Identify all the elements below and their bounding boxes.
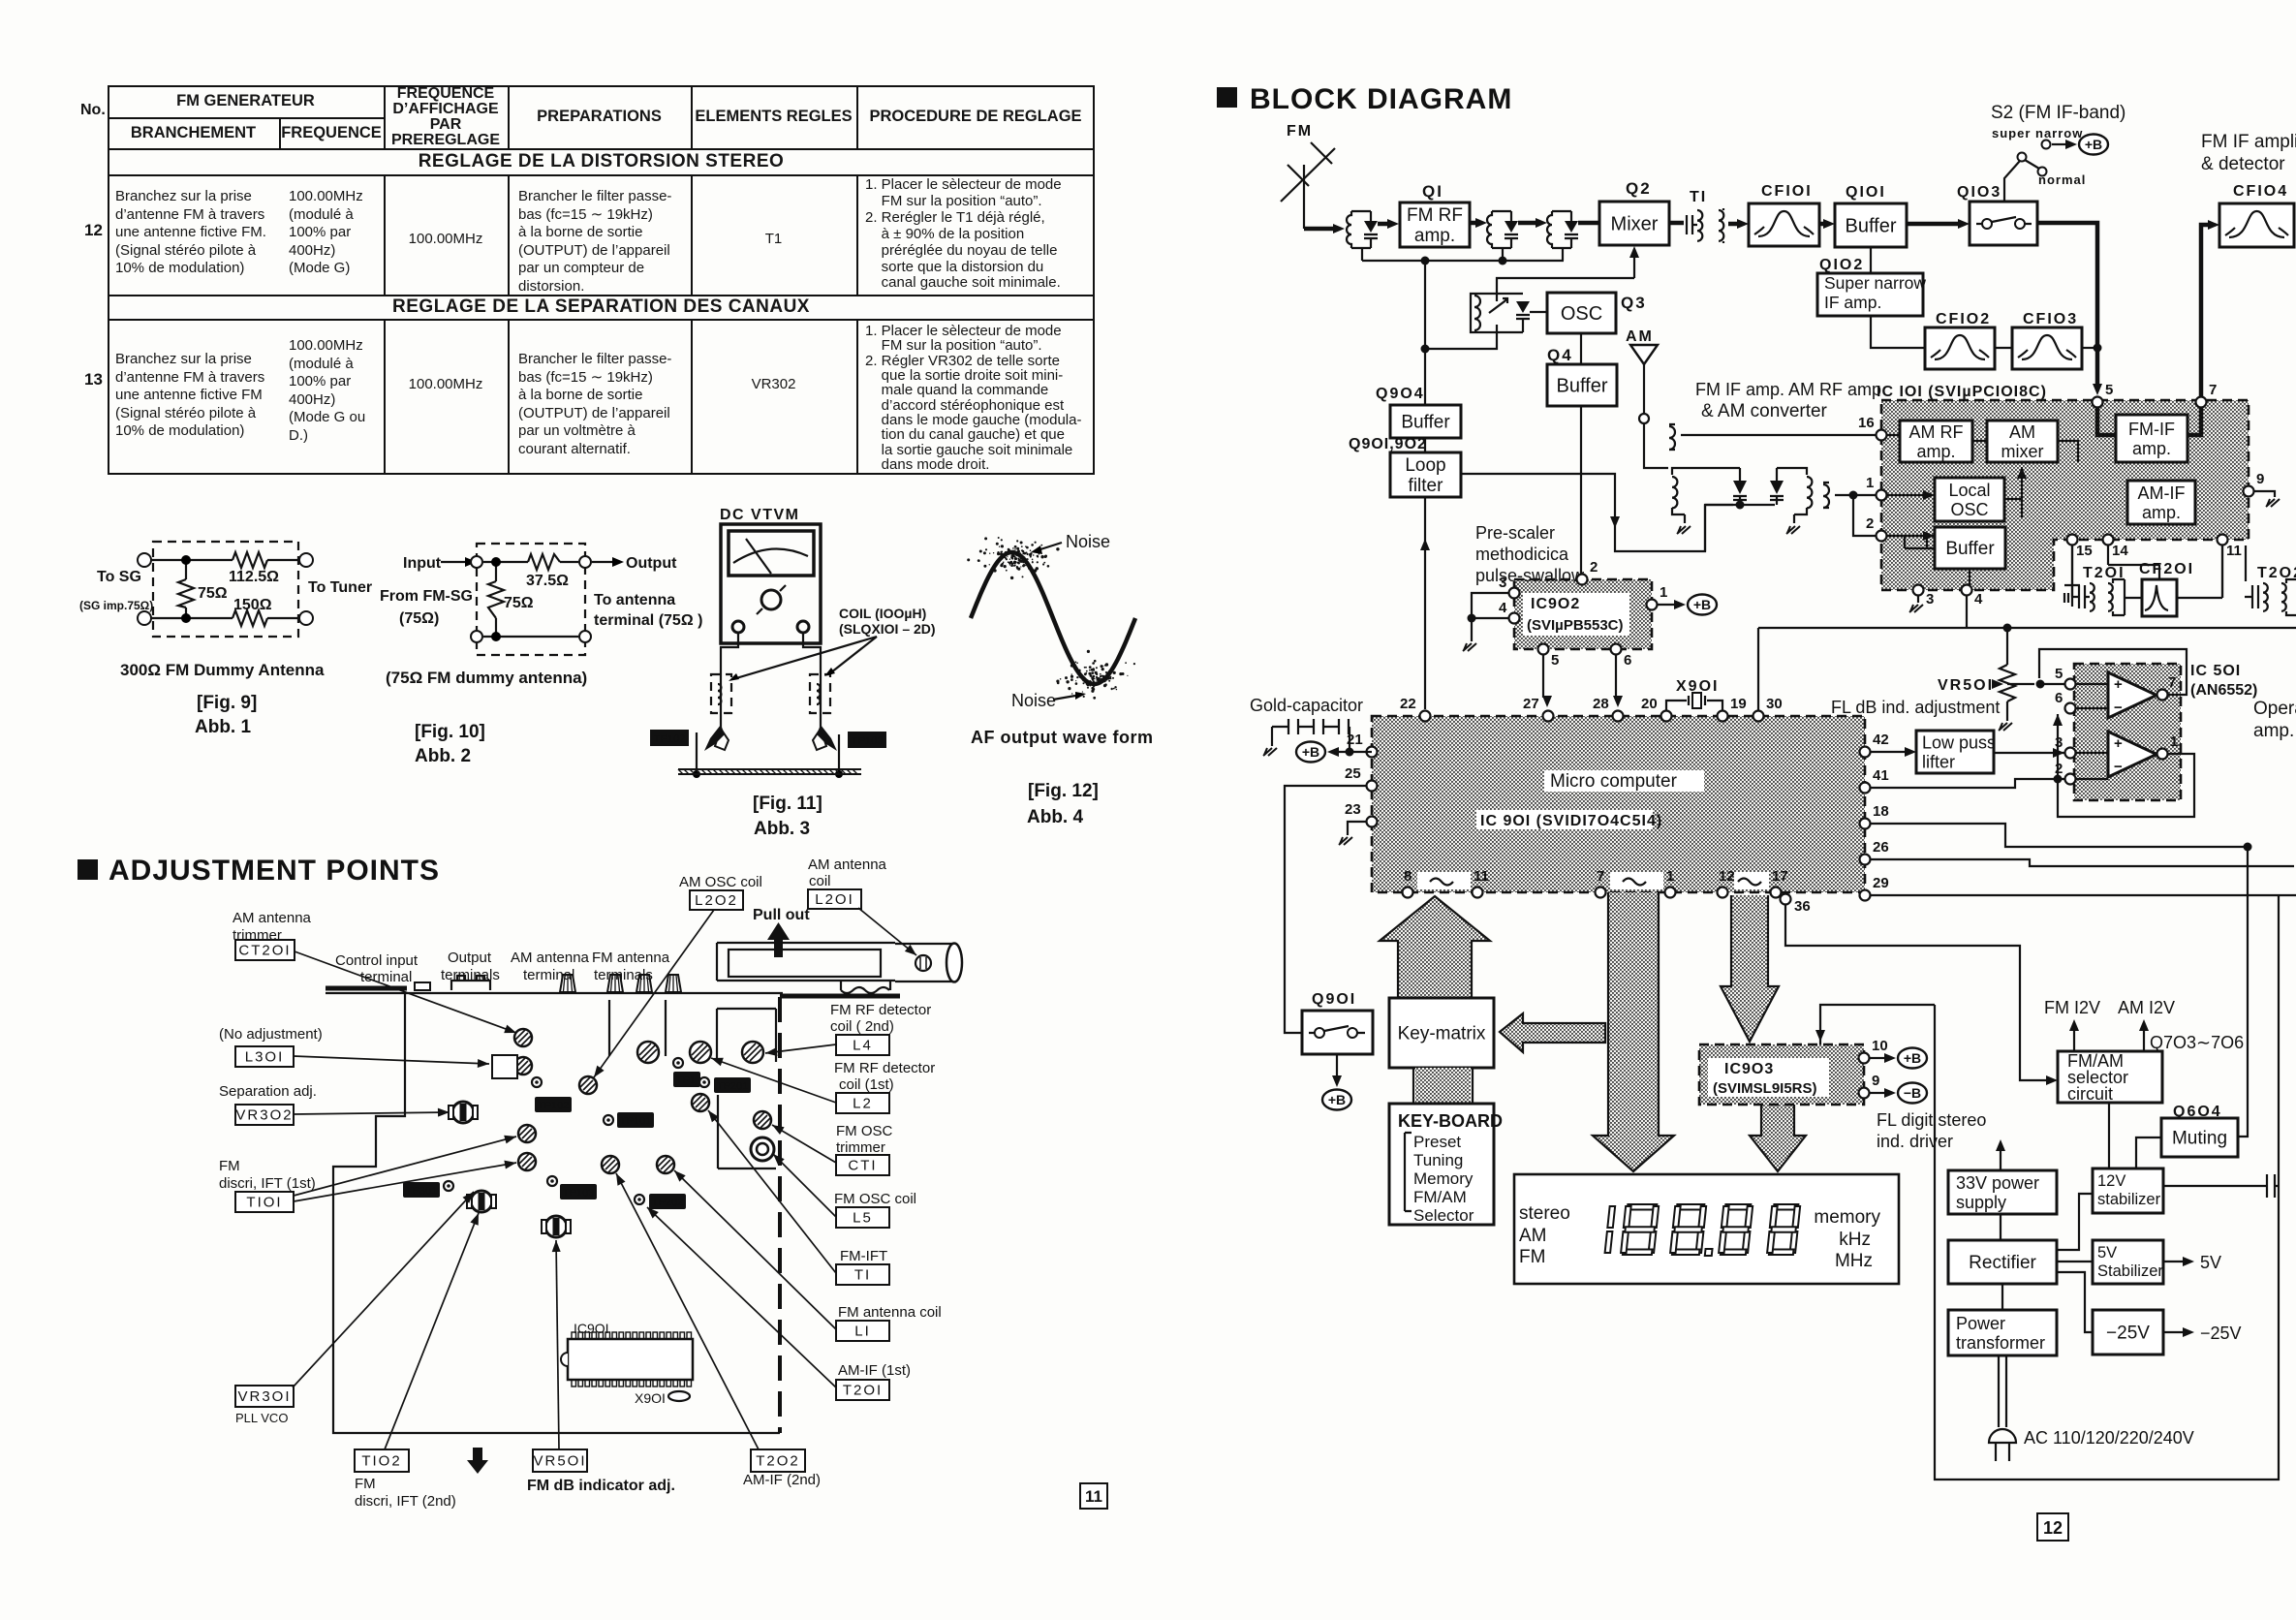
L202 pointer line bbox=[594, 910, 714, 1077]
svg-text:FM I2V: FM I2V bbox=[2044, 998, 2100, 1017]
test point TP103 bbox=[547, 1176, 597, 1199]
switch S2 (FM IF-band) bbox=[1991, 103, 2125, 202]
test point TP301 bbox=[403, 1181, 453, 1198]
AM mixer block bbox=[1987, 421, 2058, 462]
svg-text:+: + bbox=[2114, 676, 2123, 693]
IC901 micro computer (shaded) bbox=[1372, 716, 1865, 892]
svg-text:FM RF detector: FM RF detector bbox=[834, 1060, 935, 1076]
12V stabilizer block bbox=[2093, 1168, 2163, 1213]
wire Q904 to loop filter bbox=[1424, 438, 1426, 452]
svg-text:28: 28 bbox=[1593, 696, 1609, 712]
svg-text:terminals: terminals bbox=[441, 967, 500, 983]
AM tuned circuit with varicap diodes bbox=[1672, 468, 1775, 551]
page number 11 bbox=[1080, 1483, 1107, 1509]
X901 crystal bbox=[1666, 678, 1722, 710]
screw L202 target bbox=[579, 1076, 597, 1094]
svg-text:+: + bbox=[2114, 735, 2123, 752]
svg-text:discri, IFT (2nd): discri, IFT (2nd) bbox=[355, 1493, 456, 1510]
svg-text:FM IF amplifi: FM IF amplifi bbox=[2201, 132, 2296, 152]
svg-text:FM RF detector: FM RF detector bbox=[830, 1002, 931, 1018]
test point TP102 bbox=[532, 1077, 572, 1112]
VR501 pointer line bbox=[556, 1240, 559, 1449]
alligator clips bbox=[704, 725, 725, 751]
screw big 2 (L2) bbox=[690, 1042, 711, 1063]
L201 pointer line bbox=[858, 908, 916, 955]
svg-text:& AM converter: & AM converter bbox=[1701, 401, 1828, 421]
svg-text:7: 7 bbox=[2209, 382, 2217, 398]
label box L5 bbox=[836, 1207, 889, 1228]
svg-text:AM RF: AM RF bbox=[1909, 422, 1964, 442]
screw (CT201 target) bbox=[514, 1029, 532, 1046]
micro left pins bbox=[1347, 732, 1378, 758]
pin 3 ground bbox=[1917, 596, 1919, 603]
screw CT1 target bbox=[754, 1111, 771, 1129]
IC902 prescaler (shaded) bbox=[1514, 579, 1652, 649]
svg-text:11: 11 bbox=[2226, 543, 2242, 559]
pin 11 wire down bbox=[2221, 545, 2223, 598]
screw T101b bbox=[518, 1153, 536, 1170]
svg-text:FM: FM bbox=[219, 1158, 240, 1174]
svg-text:CTI: CTI bbox=[848, 1158, 877, 1174]
screw T101a bbox=[518, 1125, 536, 1142]
T202 pointer line bbox=[616, 1173, 759, 1449]
micro bottom pins bbox=[1403, 868, 1413, 898]
label box T201 bbox=[836, 1380, 889, 1400]
micro top pins bbox=[1400, 696, 1431, 722]
wires power chain bbox=[2001, 1214, 2002, 1310]
svg-text:FM-IF: FM-IF bbox=[2128, 420, 2175, 439]
L201 coil screw on rod bbox=[915, 955, 931, 971]
antenna terminal cone 3 bbox=[636, 975, 652, 992]
Buffer block (AM osc) bbox=[1935, 527, 2005, 569]
T102 pointer line bbox=[385, 1213, 479, 1449]
svg-text:Tuning: Tuning bbox=[1413, 1151, 1463, 1169]
svg-text:AM: AM bbox=[1626, 328, 1654, 345]
wire top bbox=[483, 561, 578, 563]
svg-text:TI: TI bbox=[854, 1267, 871, 1284]
svg-text:19: 19 bbox=[1730, 696, 1747, 712]
svg-text:Q3: Q3 bbox=[1621, 294, 1647, 312]
svg-text:TI: TI bbox=[1690, 189, 1707, 205]
svg-text:CFIOI: CFIOI bbox=[1761, 183, 1813, 200]
antenna terminal cone 2 bbox=[607, 975, 623, 992]
label box T101 bbox=[235, 1192, 294, 1212]
svg-text:300Ω FM Dummy Antenna: 300Ω FM Dummy Antenna bbox=[120, 661, 325, 679]
label box VR301 bbox=[235, 1386, 294, 1407]
internal wires IC101 bbox=[1881, 435, 2078, 495]
svg-text:Output: Output bbox=[448, 950, 492, 966]
svg-text:16: 16 bbox=[1858, 415, 1875, 431]
svg-text:+B: +B bbox=[1302, 744, 1319, 760]
potentiometer VR501 target bbox=[542, 1216, 571, 1237]
svg-text:QIOI: QIOI bbox=[1846, 184, 1886, 201]
svg-text:PLL VCO: PLL VCO bbox=[235, 1411, 288, 1425]
svg-text:terminal (75Ω ): terminal (75Ω ) bbox=[594, 612, 702, 629]
svg-text:VR3OI: VR3OI bbox=[237, 1388, 291, 1405]
wire tank bottom to loop bus bbox=[1425, 332, 1497, 349]
svg-text:17: 17 bbox=[1772, 868, 1788, 885]
wire micro 26 to right edge bbox=[1871, 859, 2294, 866]
svg-text:11: 11 bbox=[1474, 868, 1489, 885]
white box beside L301 screw bbox=[492, 1055, 517, 1078]
meter knob bbox=[761, 590, 781, 609]
enclosure: power section boundary bbox=[1935, 895, 2279, 1480]
svg-text:AM OSC coil: AM OSC coil bbox=[679, 874, 762, 890]
wire Q1 to tuned circuit 2 bbox=[1470, 218, 1487, 228]
resistor 75ohm (shunt) bbox=[185, 560, 187, 618]
svg-text:7: 7 bbox=[1597, 868, 1604, 885]
wire tank to OSC box bbox=[1530, 311, 1547, 313]
svg-text:ADJUSTMENT POINTS: ADJUSTMENT POINTS bbox=[109, 855, 440, 887]
T201 transformer bbox=[2064, 545, 2125, 615]
wire bottom bbox=[151, 617, 299, 619]
wire Q101 to Q102 bbox=[1870, 247, 1872, 273]
svg-text:FM antenna coil: FM antenna coil bbox=[838, 1304, 942, 1321]
feedback pin1 to pin6 bbox=[2058, 714, 2194, 817]
antenna terminal cone 1 bbox=[560, 975, 575, 992]
figure: 300ohm FM dummy antenna (Fig.9) bbox=[79, 542, 372, 737]
svg-text:AM-IF (2nd): AM-IF (2nd) bbox=[743, 1472, 821, 1488]
micro right pins bbox=[1860, 732, 1889, 758]
svg-text:[Fig. 11]: [Fig. 11] bbox=[753, 794, 822, 814]
dashed enclosure bbox=[477, 544, 585, 655]
probe leads bbox=[721, 633, 738, 732]
control input terminal connector bbox=[415, 982, 430, 990]
svg-text:37.5Ω: 37.5Ω bbox=[526, 573, 569, 589]
svg-text:(SLQXIOI – 2D): (SLQXIOI – 2D) bbox=[839, 621, 936, 637]
svg-text:FL dB ind. adjustment: FL dB ind. adjustment bbox=[1831, 698, 2000, 717]
resistor 75ohm shunt bbox=[495, 562, 497, 637]
svg-text:1: 1 bbox=[1660, 584, 1667, 601]
svg-text:(SVIMSL9I5RS): (SVIMSL9I5RS) bbox=[1713, 1080, 1817, 1097]
svg-text:Buffer: Buffer bbox=[1557, 376, 1608, 397]
IC101 pins bbox=[2093, 382, 2114, 408]
instrument: DC VTVM meter (Fig.11) bbox=[650, 507, 936, 839]
T1 pointer line bbox=[708, 1110, 836, 1273]
svg-text:To Tuner: To Tuner bbox=[308, 579, 372, 596]
svg-text:TIOI: TIOI bbox=[246, 1195, 282, 1211]
AM bar antenna rod bbox=[717, 943, 962, 993]
svg-text:QIO2: QIO2 bbox=[1819, 257, 1864, 273]
svg-text:FM/AM: FM/AM bbox=[1413, 1188, 1467, 1206]
potentiometer VR501 bbox=[1831, 624, 2064, 732]
block arrow down to IC903 bbox=[1721, 895, 1779, 1042]
svg-text:3: 3 bbox=[1499, 575, 1506, 591]
svg-text:5: 5 bbox=[1551, 652, 1559, 669]
svg-text:(AN6552): (AN6552) bbox=[2190, 682, 2257, 699]
screw L1 target bbox=[657, 1156, 674, 1173]
header texts bbox=[108, 85, 384, 117]
CF201 filter bbox=[2125, 545, 2222, 616]
svg-text:TP103: TP103 bbox=[563, 1188, 594, 1199]
svg-text:supply: supply bbox=[1956, 1193, 2006, 1212]
wires into op amps bbox=[2076, 684, 2157, 779]
terminals bbox=[138, 553, 151, 567]
5V stabilizer block bbox=[2093, 1240, 2163, 1284]
svg-text:(75Ω FM dummy antenna): (75Ω FM dummy antenna) bbox=[386, 669, 587, 687]
svg-text:Buffer: Buffer bbox=[1945, 539, 1995, 559]
svg-text:Micro computer: Micro computer bbox=[1550, 771, 1678, 792]
label box T1 bbox=[836, 1264, 889, 1285]
svg-text:9: 9 bbox=[2256, 471, 2264, 487]
resistor 37.5ohm bbox=[528, 554, 560, 570]
svg-text:L5: L5 bbox=[853, 1210, 873, 1227]
screw big 3 (L4) bbox=[742, 1042, 763, 1063]
svg-text:normal: normal bbox=[2038, 172, 2086, 187]
svg-text:FM dB indicator adj.: FM dB indicator adj. bbox=[527, 1478, 675, 1494]
svg-text:T2O2: T2O2 bbox=[756, 1453, 800, 1470]
svg-text:COIL (IOOµH): COIL (IOOµH) bbox=[839, 606, 926, 621]
svg-text:5: 5 bbox=[2105, 382, 2113, 398]
svg-text:10: 10 bbox=[1872, 1038, 1888, 1054]
svg-text:filter: filter bbox=[1409, 476, 1444, 496]
svg-text:9: 9 bbox=[1872, 1073, 1879, 1089]
svg-text:1: 1 bbox=[1666, 868, 1674, 885]
svg-text:ind. driver: ind. driver bbox=[1877, 1132, 1953, 1151]
svg-text:CF2OI: CF2OI bbox=[2139, 561, 2194, 577]
wire micro 41 to op amp pin2 bbox=[1871, 779, 2064, 788]
IC902 pin6 to micro pin 28 bbox=[1615, 655, 1617, 698]
svg-text:AM antenna: AM antenna bbox=[808, 857, 887, 873]
svg-text:27: 27 bbox=[1523, 696, 1539, 712]
svg-text:LI: LI bbox=[854, 1324, 871, 1340]
pin 14 wire down bbox=[2108, 545, 2159, 579]
figure: 75ohm FM dummy antenna (Fig.10) bbox=[380, 544, 702, 766]
wire micro 36 to FM/AM selector bbox=[1785, 905, 2046, 1080]
svg-text:FL digit stereo: FL digit stereo bbox=[1877, 1110, 1986, 1130]
svg-text:amp.: amp. bbox=[2253, 721, 2294, 741]
svg-text:[Fig. 10]: [Fig. 10] bbox=[415, 722, 485, 742]
svg-text:& detector: & detector bbox=[2201, 154, 2285, 174]
svg-text:26: 26 bbox=[1873, 839, 1889, 856]
potentiometer VR302 bbox=[449, 1102, 478, 1123]
T101 pointer b line bbox=[294, 1163, 516, 1201]
svg-text:Memory: Memory bbox=[1413, 1169, 1474, 1188]
svg-text:+B: +B bbox=[1904, 1050, 1921, 1066]
svg-text:IC9OI: IC9OI bbox=[574, 1321, 609, 1336]
svg-text:6: 6 bbox=[1624, 652, 1631, 669]
tuned circuit 3 bbox=[1547, 211, 1578, 248]
wire Q102 to CF102 bbox=[1871, 316, 1925, 348]
IC901 chip bbox=[561, 1321, 693, 1406]
svg-text:4: 4 bbox=[1499, 600, 1507, 616]
svg-text:Input: Input bbox=[403, 555, 442, 572]
vertical lines full height below header bbox=[279, 117, 281, 148]
svg-text:Mixer: Mixer bbox=[1611, 214, 1659, 235]
svg-text:trimmer: trimmer bbox=[836, 1139, 885, 1156]
svg-text:Q2: Q2 bbox=[1626, 179, 1652, 198]
wire OSC to Q4 buffer bbox=[1580, 333, 1582, 364]
test point pins bbox=[696, 732, 698, 775]
output arrow bbox=[592, 561, 612, 563]
label box L1 bbox=[836, 1321, 889, 1341]
svg-text:L2OI: L2OI bbox=[815, 891, 854, 908]
svg-text:11: 11 bbox=[1085, 1487, 1102, 1506]
label box L301 bbox=[235, 1046, 294, 1067]
muting rail down to muting bbox=[2237, 847, 2248, 1137]
svg-text:S2 (FM IF-band): S2 (FM IF-band) bbox=[1991, 103, 2125, 123]
label box L201 bbox=[808, 889, 861, 909]
IC501 pins bbox=[2055, 666, 2076, 690]
svg-text:mixer: mixer bbox=[2001, 442, 2044, 461]
wire Q101 to Q103 bbox=[1907, 219, 1970, 229]
svg-text:terminal: terminal bbox=[360, 969, 412, 985]
svg-text:DC VTVM: DC VTVM bbox=[720, 507, 800, 523]
svg-text:TP102: TP102 bbox=[654, 733, 685, 745]
wire bus down to Q904 buffer bbox=[1421, 261, 1430, 405]
svg-text:3: 3 bbox=[2055, 734, 2063, 751]
svg-text:Rectifier: Rectifier bbox=[1969, 1253, 2036, 1273]
svg-text:FM OSC coil: FM OSC coil bbox=[834, 1191, 916, 1207]
svg-text:OSC: OSC bbox=[1561, 303, 1602, 325]
svg-text:75Ω: 75Ω bbox=[198, 585, 228, 602]
T201 pointer line bbox=[647, 1207, 836, 1387]
gold capacitor chain bbox=[1250, 696, 1372, 763]
svg-text:(SVIµPB553C): (SVIµPB553C) bbox=[1527, 617, 1624, 634]
svg-text:L2: L2 bbox=[853, 1096, 873, 1112]
switch Q901 bbox=[1302, 991, 1373, 1110]
rectifier block bbox=[1948, 1240, 2057, 1284]
antenna terminal cone 4 bbox=[666, 975, 681, 992]
svg-text:Preset: Preset bbox=[1413, 1133, 1461, 1151]
svg-text:trimmer: trimmer bbox=[233, 927, 282, 944]
content groups get appended here bbox=[79, 507, 1154, 839]
svg-text:Pull out: Pull out bbox=[753, 907, 810, 923]
svg-text:TIO2: TIO2 bbox=[361, 1453, 401, 1470]
svg-text:TP202: TP202 bbox=[652, 1198, 683, 1209]
wire loop filter to varicap control bbox=[1461, 474, 1733, 551]
svg-text:Q9OI,9O2: Q9OI,9O2 bbox=[1349, 436, 1427, 452]
loop filter block bbox=[1390, 452, 1461, 497]
svg-text:Buffer: Buffer bbox=[1401, 413, 1450, 433]
svg-text:Gold-capacitor: Gold-capacitor bbox=[1250, 696, 1363, 715]
section header: ADJUSTMENT POINTS bbox=[78, 855, 440, 887]
wire Q4 to IC902 pin 2 bbox=[1580, 406, 1582, 574]
svg-text:Abb. 3: Abb. 3 bbox=[754, 819, 810, 839]
svg-text:FM antenna: FM antenna bbox=[592, 950, 670, 966]
svg-text:25: 25 bbox=[1345, 765, 1361, 782]
svg-text:Abb. 4: Abb. 4 bbox=[1027, 807, 1083, 827]
svg-text:stereo: stereo bbox=[1519, 1203, 1570, 1224]
test point TP101 bbox=[604, 1112, 654, 1128]
wire pin2 buffer input bbox=[1887, 536, 1935, 548]
wire CF103 to IF bus bbox=[2082, 347, 2097, 349]
wire lifter to op amp pin3 bbox=[1994, 752, 2064, 754]
pin 25 wire to key matrix line bbox=[1285, 786, 1366, 1033]
tuned circuit 1 bbox=[1347, 211, 1378, 248]
wire loop filter to micro pin 22 bbox=[1420, 497, 1430, 709]
svg-text:29: 29 bbox=[1873, 875, 1889, 891]
svg-text:amp.: amp. bbox=[2142, 503, 2181, 522]
coil dashed box left with coil bbox=[711, 674, 731, 713]
svg-text:CFIO4: CFIO4 bbox=[2233, 183, 2288, 200]
IC902 pin1 to +B bbox=[1658, 604, 1674, 606]
label box CT1 bbox=[836, 1155, 889, 1175]
coil dashed box right with coil bbox=[810, 674, 830, 713]
12V rail to right with capacitor bbox=[2163, 1174, 2279, 1198]
FM-IF amp block bbox=[2116, 415, 2187, 462]
svg-text:KEY-BOARD: KEY-BOARD bbox=[1398, 1111, 1503, 1131]
pin 15 wire down to T201 bbox=[2071, 581, 2072, 597]
-25V block bbox=[2093, 1310, 2163, 1355]
svg-text:OSC: OSC bbox=[1950, 500, 1988, 519]
svg-text:AM: AM bbox=[2009, 422, 2035, 442]
svg-text:42: 42 bbox=[1873, 732, 1889, 748]
svg-text:amp.: amp. bbox=[1916, 442, 1955, 461]
pull out arrow bbox=[767, 922, 790, 957]
svg-text:5V: 5V bbox=[2200, 1253, 2221, 1272]
svg-text:3: 3 bbox=[1926, 591, 1934, 607]
AM loopstick coupling coil (to pin 16) bbox=[1669, 424, 1876, 450]
svg-text:BLOCK DIAGRAM: BLOCK DIAGRAM bbox=[1250, 83, 1512, 115]
seven segment frequency digits 188.88 bbox=[1604, 1204, 1800, 1256]
svg-text:Noise: Noise bbox=[1066, 532, 1110, 551]
potentiometer T102 target bbox=[467, 1191, 496, 1212]
pin 30 wire up to line y648 bbox=[1757, 628, 1759, 710]
label box L2 bbox=[836, 1093, 889, 1113]
wire muting to 12V stabilizer bbox=[2136, 1137, 2161, 1168]
L2 pointer line bbox=[711, 1058, 836, 1103]
svg-text:Pre-scaler: Pre-scaler bbox=[1475, 523, 1555, 543]
block arrow down to display bbox=[1593, 892, 1674, 1171]
FL display panel bbox=[1514, 1174, 1899, 1284]
svg-text:TP201: TP201 bbox=[717, 1081, 748, 1093]
label box T102 bbox=[355, 1449, 409, 1472]
svg-text:transformer: transformer bbox=[1956, 1333, 2045, 1353]
CT201 pointer line bbox=[295, 951, 516, 1033]
svg-text:CFIO2: CFIO2 bbox=[1936, 311, 1991, 327]
svg-text:methodicica: methodicica bbox=[1475, 545, 1569, 564]
svg-text:12V: 12V bbox=[2097, 1172, 2125, 1190]
svg-text:22: 22 bbox=[1400, 696, 1416, 712]
coil sleeve below rod bbox=[841, 981, 890, 993]
svg-text:L3OI: L3OI bbox=[245, 1049, 285, 1066]
wire top bbox=[151, 559, 299, 561]
FM/AM selector circuit block bbox=[2058, 1051, 2162, 1104]
IC101 FM IF / AM RF / AM converter (shaded) bbox=[1881, 400, 2249, 590]
svg-text:12: 12 bbox=[2043, 1518, 2063, 1538]
svg-text:Local: Local bbox=[1948, 481, 1990, 500]
svg-text:Q4: Q4 bbox=[1547, 346, 1573, 364]
svg-text:IF amp.: IF amp. bbox=[1824, 293, 1881, 312]
wire to tuned circuit 3 bbox=[1518, 218, 1547, 228]
input arrow bbox=[441, 561, 465, 563]
horizontal lines bbox=[108, 117, 384, 119]
terminals bbox=[471, 556, 482, 568]
svg-text:To SG: To SG bbox=[97, 569, 141, 585]
svg-text:AM-IF: AM-IF bbox=[2138, 483, 2186, 503]
power transformer block bbox=[1948, 1310, 2057, 1355]
svg-text:(No adjustment): (No adjustment) bbox=[219, 1026, 323, 1043]
wire antenna to coil T1a bbox=[1304, 224, 1345, 234]
svg-text:coil ( 2nd): coil ( 2nd) bbox=[830, 1018, 894, 1035]
svg-text:75Ω: 75Ω bbox=[504, 595, 534, 611]
block arrow left (display data to key matrix) bbox=[1500, 1013, 1605, 1052]
svg-text:8: 8 bbox=[1404, 868, 1412, 885]
svg-text:+B: +B bbox=[1693, 597, 1711, 612]
label box T202 bbox=[751, 1449, 805, 1472]
svg-text:7: 7 bbox=[2168, 674, 2176, 691]
trimmer capacitor CT1 (double circle) bbox=[751, 1137, 774, 1161]
block arrow IC903 to display bbox=[1750, 1105, 1806, 1171]
T101 pointer a line bbox=[294, 1137, 516, 1196]
wire T1 to CF101 bbox=[1728, 219, 1749, 229]
svg-text:5: 5 bbox=[2055, 666, 2063, 682]
svg-text:20: 20 bbox=[1641, 696, 1658, 712]
svg-text:−25V: −25V bbox=[2200, 1324, 2242, 1343]
label box CT201 bbox=[235, 940, 295, 960]
svg-text:TP101: TP101 bbox=[620, 1116, 651, 1128]
